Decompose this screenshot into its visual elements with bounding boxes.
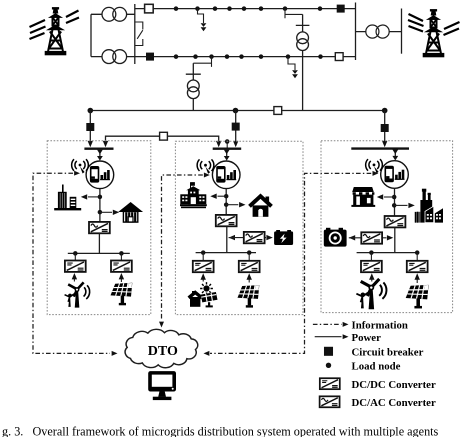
wire TR to buses bbox=[356, 31, 402, 33]
MG1 solar DC/DC converter bbox=[111, 253, 132, 272]
load node B6 bbox=[259, 54, 264, 59]
MG2 drop wire with breaker bbox=[232, 111, 240, 148]
MG2 controller circle bbox=[212, 161, 240, 189]
MG3 arrow to factory bbox=[394, 203, 415, 208]
MG3 appliance branch arrows bbox=[349, 235, 394, 240]
wire left feeder vertical bbox=[90, 14, 92, 56]
MG2 rooftop DC/DC converter bbox=[193, 253, 214, 273]
circuit breaker open on line A bbox=[145, 4, 154, 13]
MG1 DC/AC converter main bbox=[89, 222, 110, 233]
MG1 wind DC/DC converter bbox=[65, 253, 86, 272]
svg-text:Power: Power bbox=[352, 332, 382, 344]
load node B3 bbox=[209, 54, 214, 59]
MG1 DC junction bar bbox=[68, 252, 130, 254]
legend DC/AC converter bbox=[320, 396, 436, 409]
MG3 drop wire with breaker bbox=[381, 111, 389, 148]
MG3 antenna bbox=[366, 159, 383, 173]
transmission tower left bbox=[30, 7, 80, 55]
MG1 wind turbine icon bbox=[65, 282, 90, 307]
MG2 battery branch arrows bbox=[229, 235, 273, 240]
MG3 arrow to shop bbox=[377, 194, 394, 199]
MG3 factory icon bbox=[415, 189, 443, 223]
feeder load arrow on line A bbox=[198, 9, 207, 32]
MG1 wind arrow up bbox=[72, 273, 77, 282]
load node B5 bbox=[239, 54, 244, 59]
MG2 antenna bbox=[197, 159, 214, 173]
legend circuit breaker bbox=[324, 347, 424, 359]
wire branch to grounding transformer T4 bbox=[193, 57, 211, 67]
MG2 arrow to house bbox=[226, 202, 245, 207]
right grid vertical bus bbox=[355, 3, 357, 61]
MG1 antenna bbox=[72, 159, 89, 173]
MG2 solar DC/DC converter bbox=[239, 253, 260, 273]
MG2 solar panel icon bbox=[238, 285, 260, 308]
node feeder left bbox=[87, 108, 93, 114]
MG2 load node 2 bbox=[224, 202, 229, 207]
MG3 feeder line below controller bbox=[394, 188, 396, 216]
MG2 PCC node bbox=[225, 139, 230, 147]
MG1 feeder line below controller bbox=[99, 189, 101, 222]
bus 3 (distribution feeder) bbox=[90, 110, 384, 112]
circuit breaker closed on line A bbox=[337, 5, 345, 13]
MG3 appliance DC/AC converter bbox=[361, 232, 382, 243]
MG2 arrow to school bbox=[210, 194, 226, 199]
bus 1 vertical bbox=[134, 4, 136, 64]
MG1 load node 1 bbox=[98, 195, 103, 200]
circuit breaker open on bus 3 bbox=[274, 107, 282, 115]
right terminal vertical bbox=[401, 9, 403, 54]
information link MG3 to DTO bbox=[204, 171, 379, 356]
monitor icon bbox=[148, 371, 176, 400]
MG3 PCC bar bbox=[351, 147, 409, 149]
MG1 PCC bar bbox=[84, 147, 113, 149]
MG2 rooftop arrow up bbox=[201, 273, 206, 281]
microgrid 2 boundary box bbox=[175, 141, 303, 314]
MG3 smart appliance icon bbox=[324, 228, 347, 247]
MG2 PCC bar bbox=[213, 147, 242, 149]
bus 2 (MV bus) bbox=[135, 56, 356, 58]
MG2 wire converter to junction bbox=[226, 226, 228, 252]
MG1 solar arrow up bbox=[119, 273, 124, 282]
MG3 bar-controller arrow bbox=[392, 150, 398, 161]
MG2 school icon bbox=[180, 182, 207, 208]
MG2 house with solar icon bbox=[189, 291, 218, 307]
MG3 junction node R bbox=[415, 250, 420, 255]
MG3 wind DC/DC converter bbox=[361, 253, 382, 273]
load node A3 bbox=[213, 6, 218, 11]
transformer T2 bbox=[102, 50, 127, 64]
MG1 house icon bbox=[120, 203, 141, 222]
tie line MG1-MG2 with open breaker bbox=[103, 132, 222, 147]
load node A7 bbox=[283, 6, 288, 11]
MG2 solar arrow up bbox=[247, 273, 252, 282]
load node A1 bbox=[174, 6, 179, 11]
svg-text:DC/DC Converter: DC/DC Converter bbox=[352, 379, 436, 391]
information link MG1 to DTO bbox=[33, 171, 118, 356]
MG3 wire converter to junction bbox=[394, 228, 396, 253]
information link MG2 to DTO bbox=[159, 173, 210, 328]
legend DC/DC converter bbox=[320, 378, 436, 391]
circuit breaker closed on bus 2 bbox=[146, 53, 154, 61]
node feeder mid bbox=[233, 108, 239, 114]
svg-text:Circuit breaker: Circuit breaker bbox=[352, 347, 424, 359]
MG2 bar-controller arrow bbox=[224, 150, 230, 161]
legend load node bbox=[326, 361, 401, 373]
svg-text:g. 3. Overall framework of m: g. 3. Overall framework of microgrids di… bbox=[2, 425, 439, 437]
DTO cloud bbox=[125, 329, 198, 367]
MG1 junction node L bbox=[73, 251, 78, 256]
legend information bbox=[313, 320, 408, 332]
circuit breaker open on bus 2 bbox=[335, 53, 343, 61]
MG1 solar panel icon bbox=[111, 283, 133, 306]
MG1 commercial building icon bbox=[54, 185, 81, 211]
microgrid 3 boundary box bbox=[321, 141, 453, 313]
load node B8 bbox=[318, 54, 323, 59]
microgrid 1 boundary box bbox=[47, 141, 151, 315]
load node A5 bbox=[242, 6, 247, 11]
MG1 load node 2 bbox=[98, 210, 103, 215]
load node B4 bbox=[225, 54, 230, 59]
MG2 feeder line below controller bbox=[225, 189, 227, 216]
MG3 solar arrow up bbox=[415, 273, 420, 283]
legend power bbox=[315, 332, 381, 344]
MG3 DC junction bar bbox=[357, 252, 419, 254]
MG1 arrow to building bbox=[81, 194, 100, 199]
svg-text:Information: Information bbox=[352, 320, 408, 332]
MG2 DC junction bar bbox=[196, 252, 256, 254]
MG3 junction node L bbox=[369, 250, 374, 255]
wire T2 to bus bbox=[91, 56, 135, 58]
svg-text:DTO: DTO bbox=[148, 344, 178, 359]
MG3 controller circle bbox=[381, 161, 409, 189]
line A (HV bus) bbox=[135, 8, 356, 10]
MG3 load node 1 bbox=[392, 195, 397, 200]
disconnector switch S1 bbox=[135, 22, 143, 46]
wire branch to station transformer T3 bbox=[285, 9, 303, 19]
MG3 solar panel icon bbox=[406, 285, 429, 309]
feeder load arrow on bus 2 bbox=[288, 57, 298, 79]
MG2 load node 1 bbox=[224, 194, 229, 199]
MG3 shop icon bbox=[351, 187, 375, 207]
node feeder right bbox=[382, 108, 388, 114]
transformer T1 bbox=[102, 7, 127, 21]
MG1 arrow to house bbox=[100, 210, 119, 215]
MG2 battery DC/AC converter bbox=[244, 232, 265, 243]
MG2 house icon bbox=[250, 196, 272, 217]
MG1 controller circle bbox=[86, 161, 114, 189]
MG2 junction node L bbox=[201, 250, 206, 255]
MG1 junction node R bbox=[119, 251, 124, 256]
load node B1 bbox=[174, 54, 179, 59]
MG2 battery icon bbox=[274, 230, 293, 245]
station transformer T3 with isolator bar bbox=[296, 14, 310, 110]
MG2 sun icon bbox=[200, 282, 213, 295]
svg-text:DC/AC Converter: DC/AC Converter bbox=[352, 397, 436, 409]
transmission tower right bbox=[408, 9, 460, 57]
MG2 junction node R bbox=[247, 250, 252, 255]
grounding transformer T4 with isolator bar bbox=[186, 63, 201, 110]
MG3 wind arrow up bbox=[369, 273, 374, 281]
MG3 wind turbine icon bbox=[356, 279, 386, 309]
MG1 drop wire with breaker bbox=[86, 111, 94, 148]
load node B2 bbox=[193, 54, 198, 59]
load node A6 bbox=[259, 6, 264, 11]
MG1 wire converter to junction bbox=[98, 233, 100, 253]
MG2 DC/AC converter main bbox=[216, 215, 237, 226]
MG3 solar DC/DC converter bbox=[407, 253, 428, 273]
load node A4 bbox=[227, 6, 232, 11]
MG1 bar-controller arrow bbox=[97, 150, 103, 161]
transformer TR bbox=[366, 25, 389, 38]
MG3 load node 2 bbox=[392, 203, 397, 208]
load node B7 bbox=[286, 54, 291, 59]
svg-text:Load node: Load node bbox=[352, 361, 401, 373]
load node A2 bbox=[195, 6, 200, 11]
wire T1 to bus bbox=[91, 13, 135, 15]
MG3 DC/AC converter main bbox=[385, 216, 406, 227]
load node A8 bbox=[318, 6, 323, 11]
